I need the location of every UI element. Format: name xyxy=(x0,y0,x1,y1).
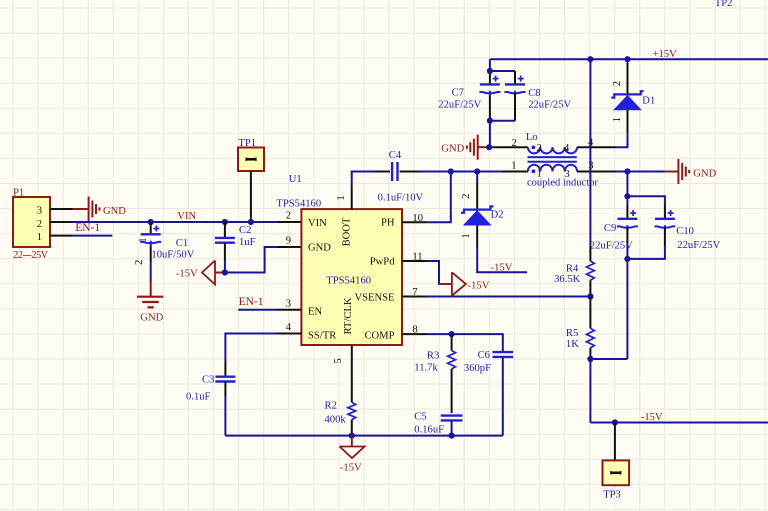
wire TP3 xyxy=(614,423,616,461)
diode D1 xyxy=(611,59,644,122)
wire U1 pin10 stub xyxy=(402,221,427,223)
junction C5 bottom xyxy=(449,433,455,439)
wire pin4 to C3 xyxy=(225,334,276,363)
resistor R5 xyxy=(587,297,595,360)
wire TP1 to VIN xyxy=(250,171,252,217)
junction C7 top xyxy=(487,68,493,74)
svg-text:C9: C9 xyxy=(604,223,616,234)
junction GND row xyxy=(486,144,492,150)
svg-text:3: 3 xyxy=(37,206,42,217)
wire U1 pin8 stub xyxy=(402,333,427,335)
svg-text:1: 1 xyxy=(612,117,623,122)
wire EN-1 (P1) xyxy=(73,235,113,237)
junction pin3 row xyxy=(624,168,630,174)
svg-text:U1: U1 xyxy=(289,174,302,185)
svg-text:360pF: 360pF xyxy=(464,363,491,374)
svg-text:2: 2 xyxy=(612,81,623,86)
capacitor C9 xyxy=(617,210,638,259)
svg-text:-15V: -15V xyxy=(340,462,362,473)
wire PH row to D2 xyxy=(451,171,477,173)
capacitor C2 xyxy=(215,222,235,273)
svg-text:C7: C7 xyxy=(452,88,464,99)
connector P1 xyxy=(13,197,73,247)
junction R5 bottom xyxy=(587,356,593,362)
svg-text:3: 3 xyxy=(564,169,569,180)
wire U1 pin7 stub xyxy=(402,296,427,298)
svg-text:TPS54160: TPS54160 xyxy=(326,276,371,287)
svg-text:R3: R3 xyxy=(427,351,439,362)
junction R3 top xyxy=(449,331,455,337)
svg-text:0.1uF/10V: 0.1uF/10V xyxy=(378,193,424,204)
svg-text:2: 2 xyxy=(512,138,517,149)
junction at C1 xyxy=(148,219,154,225)
svg-text:C8: C8 xyxy=(528,88,540,99)
resistor R3 xyxy=(448,334,456,413)
svg-text:SS/TR: SS/TR xyxy=(308,331,337,342)
junction R2 bottom xyxy=(349,433,355,439)
wire Lo pin1 xyxy=(477,171,502,173)
svg-text:5: 5 xyxy=(333,358,344,363)
svg-text:1: 1 xyxy=(336,195,347,200)
svg-text:TP3: TP3 xyxy=(603,490,621,501)
junction C9 bottom xyxy=(624,256,630,262)
inductor Lo coupled xyxy=(528,146,578,174)
svg-text:GND: GND xyxy=(441,144,464,155)
svg-text:2: 2 xyxy=(537,143,542,154)
svg-text:22uF/25V: 22uF/25V xyxy=(677,240,720,251)
wire EN-1 (U1 pin3) xyxy=(238,309,276,311)
capacitor C5 xyxy=(441,416,463,436)
svg-text:R4: R4 xyxy=(566,264,579,275)
junction R4 riser xyxy=(587,56,593,62)
svg-text:0.16uF: 0.16uF xyxy=(414,425,444,436)
svg-text:GND: GND xyxy=(140,313,163,324)
svg-text:C1: C1 xyxy=(176,238,188,249)
capacitor C4 xyxy=(375,162,420,181)
junction at C2 xyxy=(222,219,228,225)
wire U1 pin4 stub xyxy=(276,333,301,335)
junction PH riser xyxy=(448,168,454,174)
power port -15V (R2) xyxy=(340,436,365,474)
wire R5 to -15V rail xyxy=(589,359,591,423)
svg-text:1K: 1K xyxy=(566,339,579,350)
svg-text:4: 4 xyxy=(564,143,570,154)
wire COMP to C6 xyxy=(452,334,503,351)
svg-text:-15V: -15V xyxy=(641,412,663,423)
wire Lo pin3 xyxy=(577,171,615,173)
wire -15V to U1 pin9 xyxy=(225,247,277,273)
diode D2 xyxy=(461,172,494,239)
svg-text:D2: D2 xyxy=(491,209,504,220)
svg-text:R2: R2 xyxy=(325,401,337,412)
wire BOOT pin1 xyxy=(351,184,353,209)
svg-text:2: 2 xyxy=(286,211,291,222)
svg-text:R5: R5 xyxy=(566,328,578,339)
svg-text:PwPd: PwPd xyxy=(370,257,395,268)
wire pin3 row to C9 xyxy=(626,172,628,206)
svg-text:22uF/25V: 22uF/25V xyxy=(528,100,571,111)
wire +15V rail xyxy=(490,58,768,60)
junction D1 xyxy=(624,56,630,62)
svg-text:-15V: -15V xyxy=(491,262,513,273)
svg-text:2: 2 xyxy=(461,194,472,199)
svg-text:VIN: VIN xyxy=(308,218,327,229)
pin numbers Lo xyxy=(511,138,594,180)
svg-text:11.7k: 11.7k xyxy=(414,362,438,373)
power port -15V (input side) xyxy=(176,261,225,285)
wire +15V to R4 xyxy=(589,59,591,246)
wire PwPd down xyxy=(427,261,452,284)
svg-text:BOOT: BOOT xyxy=(342,217,353,246)
wire C9 bottom to R5 row xyxy=(626,259,628,359)
svg-text:C4: C4 xyxy=(389,150,402,161)
svg-text:GND: GND xyxy=(693,169,716,180)
ground GND (output) xyxy=(665,159,717,184)
svg-text:10uF/50V: 10uF/50V xyxy=(151,250,194,261)
junction at TP1 xyxy=(248,219,254,225)
svg-text:1: 1 xyxy=(37,232,42,243)
svg-text:P1: P1 xyxy=(13,188,24,199)
junction C7 bottom xyxy=(487,118,493,124)
svg-text:GND: GND xyxy=(103,206,126,217)
svg-text:C2: C2 xyxy=(239,225,251,236)
svg-text:C6: C6 xyxy=(478,350,490,361)
test point TP3 xyxy=(603,460,630,485)
svg-text:4: 4 xyxy=(286,322,292,333)
svg-text:D1: D1 xyxy=(642,96,655,107)
svg-text:C5: C5 xyxy=(414,412,426,423)
svg-text:0.1uF: 0.1uF xyxy=(186,392,211,403)
power port -15V (PwPd) xyxy=(439,272,490,295)
svg-text:400k: 400k xyxy=(325,415,347,426)
svg-text:EN-1: EN-1 xyxy=(75,222,100,234)
svg-text:VIN: VIN xyxy=(177,211,196,222)
capacitor C3 xyxy=(215,362,235,436)
capacitor C1 xyxy=(134,222,161,281)
resistor R2 xyxy=(348,402,356,435)
svg-text:TP1: TP1 xyxy=(238,138,256,149)
junction C9 top xyxy=(624,193,630,199)
wire Lo pin2 xyxy=(489,146,494,148)
svg-text:1: 1 xyxy=(511,160,516,171)
svg-text:TPS54160: TPS54160 xyxy=(276,199,321,210)
junction TP3 xyxy=(612,419,618,425)
svg-text:22uF/25V: 22uF/25V xyxy=(438,100,481,111)
svg-text:1: 1 xyxy=(138,238,149,243)
wire VSENSE to divider xyxy=(427,296,590,298)
svg-text:36.5K: 36.5K xyxy=(554,274,581,285)
wire COMP node xyxy=(427,333,452,335)
capacitor C10 xyxy=(627,196,675,259)
svg-text:TP2: TP2 xyxy=(715,0,733,9)
svg-text:C10: C10 xyxy=(676,226,694,237)
pin numbers U1 xyxy=(286,195,423,363)
capacitor C8 xyxy=(490,71,526,121)
svg-text:1: 1 xyxy=(537,168,542,179)
svg-text:COMP: COMP xyxy=(364,331,394,342)
ground GND (C1, earth) xyxy=(137,281,164,324)
op-amp U1 TPS54160 body xyxy=(301,209,402,345)
test point TP1 xyxy=(238,148,264,172)
svg-text:PH: PH xyxy=(381,218,395,229)
wire Lo pin4 to D1 xyxy=(577,146,615,148)
wire C4 to PH node xyxy=(420,171,451,173)
svg-text:+15V: +15V xyxy=(653,49,678,60)
svg-text:-15V: -15V xyxy=(176,269,198,280)
svg-text:22---25V: 22---25V xyxy=(13,250,49,261)
capacitor C7 xyxy=(479,76,500,97)
wire bottom rail xyxy=(225,435,502,437)
ground GND (P1 pin3) xyxy=(73,197,127,222)
wire +15V riser to C7 xyxy=(489,59,491,71)
svg-text:9: 9 xyxy=(286,236,291,247)
wire U1 pin2 stub xyxy=(276,221,301,223)
wire VIN rail xyxy=(73,221,277,223)
svg-text:1: 1 xyxy=(461,233,472,238)
svg-text:EN: EN xyxy=(308,307,322,318)
wire U1 pin11 stub xyxy=(402,260,427,262)
junction VSENSE divider xyxy=(587,293,593,299)
svg-text:EN-1: EN-1 xyxy=(239,296,264,308)
capacitor C6 xyxy=(493,352,514,436)
ground GND (C7 side) xyxy=(441,135,489,160)
wire -15V rail xyxy=(590,422,768,424)
resistor R4 xyxy=(587,261,595,297)
wire D2 anode to -15V stub xyxy=(476,225,478,248)
svg-text:Lo: Lo xyxy=(526,132,538,143)
svg-text:GND: GND xyxy=(308,243,331,254)
wire D1 anode xyxy=(627,110,629,133)
svg-text:-15V: -15V xyxy=(468,280,490,291)
svg-text:C3: C3 xyxy=(202,375,214,386)
wire PH riser xyxy=(427,172,450,223)
svg-text:2: 2 xyxy=(134,260,145,265)
svg-text:2: 2 xyxy=(37,219,42,230)
wire U1 pin5 xyxy=(351,345,353,402)
svg-text:VSENSE: VSENSE xyxy=(354,293,394,304)
svg-text:22uF/25V: 22uF/25V xyxy=(590,240,633,251)
wire U1 pin9 stub xyxy=(276,246,301,248)
svg-text:RT/CLK: RT/CLK xyxy=(343,297,354,334)
junction at -15V/C2 xyxy=(222,269,228,275)
pin names U1 xyxy=(308,217,395,341)
junction D2 xyxy=(474,168,480,174)
svg-text:1uF: 1uF xyxy=(239,237,256,248)
svg-text:3: 3 xyxy=(286,299,291,310)
